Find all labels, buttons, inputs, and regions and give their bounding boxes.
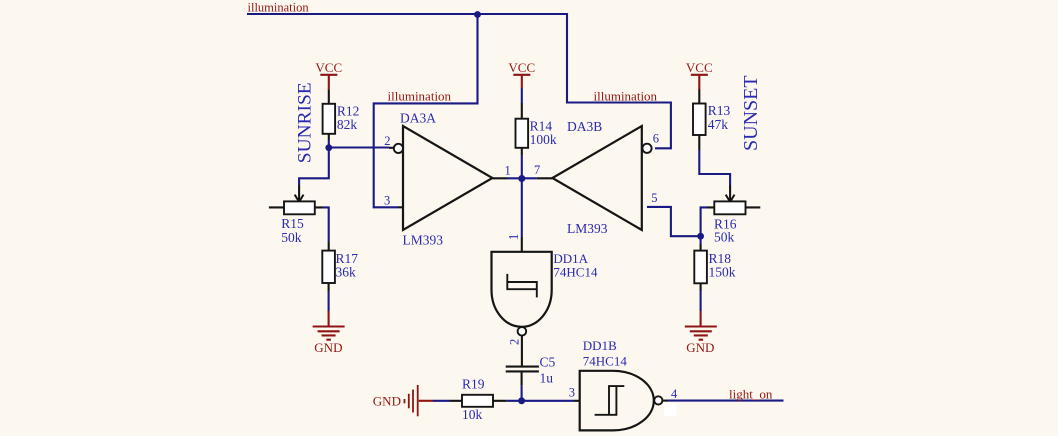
svg-text:LM393: LM393 (567, 221, 608, 236)
svg-text:VCC: VCC (315, 60, 342, 75)
svg-text:2: 2 (384, 134, 390, 148)
svg-text:50k: 50k (281, 230, 302, 245)
svg-text:DA3B: DA3B (567, 119, 602, 134)
svg-text:1: 1 (506, 233, 521, 240)
svg-text:SUNSET: SUNSET (740, 75, 762, 151)
svg-text:1: 1 (505, 164, 511, 178)
svg-text:50k: 50k (714, 229, 735, 244)
svg-text:GND: GND (314, 340, 342, 355)
svg-text:3: 3 (384, 193, 390, 207)
svg-text:illumination: illumination (388, 89, 452, 104)
svg-text:4: 4 (671, 387, 678, 401)
svg-text:illumination: illumination (594, 89, 658, 104)
svg-text:LM393: LM393 (403, 233, 444, 248)
svg-text:VCC: VCC (508, 60, 535, 75)
svg-text:74HC14: 74HC14 (553, 264, 598, 279)
svg-text:1u: 1u (540, 371, 554, 386)
svg-text:R19: R19 (462, 377, 485, 392)
svg-text:DD1B: DD1B (583, 338, 617, 353)
svg-text:R13: R13 (708, 103, 731, 118)
svg-text:GND: GND (373, 394, 401, 409)
svg-text:7: 7 (534, 163, 540, 177)
svg-text:SUNRISE: SUNRISE (295, 82, 316, 163)
svg-text:5: 5 (651, 191, 657, 205)
svg-text:6: 6 (653, 132, 659, 146)
svg-text:2: 2 (508, 339, 522, 345)
svg-text:GND: GND (686, 340, 714, 355)
svg-text:10k: 10k (462, 407, 483, 422)
svg-text:150k: 150k (709, 265, 736, 280)
svg-text:74HC14: 74HC14 (583, 353, 628, 368)
svg-text:C5: C5 (540, 355, 556, 370)
svg-text:100k: 100k (530, 132, 557, 147)
svg-text:VCC: VCC (686, 60, 713, 75)
svg-text:3: 3 (569, 386, 575, 400)
svg-text:R15: R15 (281, 216, 304, 231)
svg-text:47k: 47k (708, 117, 729, 132)
svg-text:illumination: illumination (248, 1, 310, 15)
svg-text:36k: 36k (336, 265, 357, 280)
svg-text:light_on: light_on (729, 387, 773, 402)
svg-text:DA3A: DA3A (400, 111, 436, 126)
svg-text:82k: 82k (337, 117, 358, 132)
